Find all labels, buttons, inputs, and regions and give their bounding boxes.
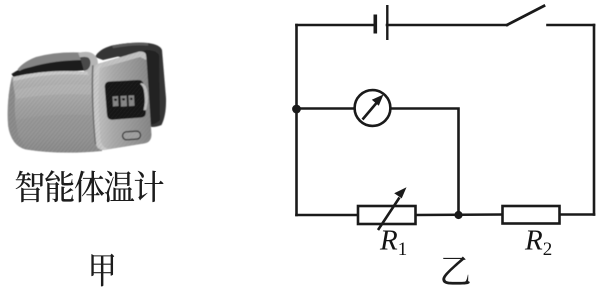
wire: right vertical <box>593 25 596 215</box>
module left highlight <box>94 65 109 150</box>
fabric texture overlay on band <box>9 71 102 153</box>
band front top rim highlight <box>13 71 88 81</box>
thermometer module body <box>93 51 152 150</box>
module left edge seam <box>92 65 97 144</box>
junction node: left wire / meter branch <box>292 105 301 114</box>
wire: battery to switch <box>387 24 507 27</box>
label 乙 <box>442 256 469 284</box>
wire: meter branch right + middle vertical down <box>391 109 459 216</box>
wire: bottom from left corner to R1 <box>297 214 359 217</box>
strap top highlight edge <box>112 43 148 49</box>
junction node: bottom wire / middle branch <box>454 211 462 219</box>
battery: long thin plate (positive) <box>386 5 388 40</box>
thermometer band: far inner wall (gray strip above opening) <box>18 52 89 71</box>
R1 slider arrow <box>378 187 407 230</box>
resistor R1 (variable, box) <box>358 206 416 224</box>
wire: R1 right to junction to R2 left <box>416 213 503 216</box>
module screen <box>105 80 146 120</box>
resistor R2 (box) <box>503 206 560 224</box>
screen digits 388 <box>113 95 135 106</box>
svg-text:R1: R1 <box>379 225 407 261</box>
svg-text:R2: R2 <box>524 225 552 261</box>
wire: top-left from battery to left corner <box>297 24 376 27</box>
band wrap hook (right end of band curling) <box>78 52 98 77</box>
strap darker inner patch <box>141 50 160 125</box>
wire: switch right contact to top-right corner <box>548 24 595 27</box>
band front surface <box>8 71 102 153</box>
hook inner shadow <box>80 57 91 71</box>
band texture shading bands <box>16 115 101 138</box>
band opening backdrop (dark inside of cuff) <box>12 54 90 80</box>
band left edge shading <box>8 77 26 150</box>
battery: short thick plate (negative) <box>373 15 377 34</box>
galvanometer needle arrow <box>363 95 384 120</box>
wire: left vertical <box>295 25 298 215</box>
texture overlay on module <box>93 51 152 150</box>
galvanometer / ammeter circle <box>355 90 391 126</box>
wire: R2 right to right corner <box>560 213 595 216</box>
switch blade (open) <box>506 5 545 25</box>
wire: meter branch left <box>297 107 355 110</box>
smart thermometer photo: dark wrist strap (band over the top + right side, behind module) <box>95 43 166 127</box>
screen right bright stripe <box>140 83 148 110</box>
module top bevel highlight <box>93 52 146 80</box>
label 甲 <box>91 254 114 287</box>
label 智能体温计 <box>16 170 164 202</box>
module button <box>122 131 141 140</box>
